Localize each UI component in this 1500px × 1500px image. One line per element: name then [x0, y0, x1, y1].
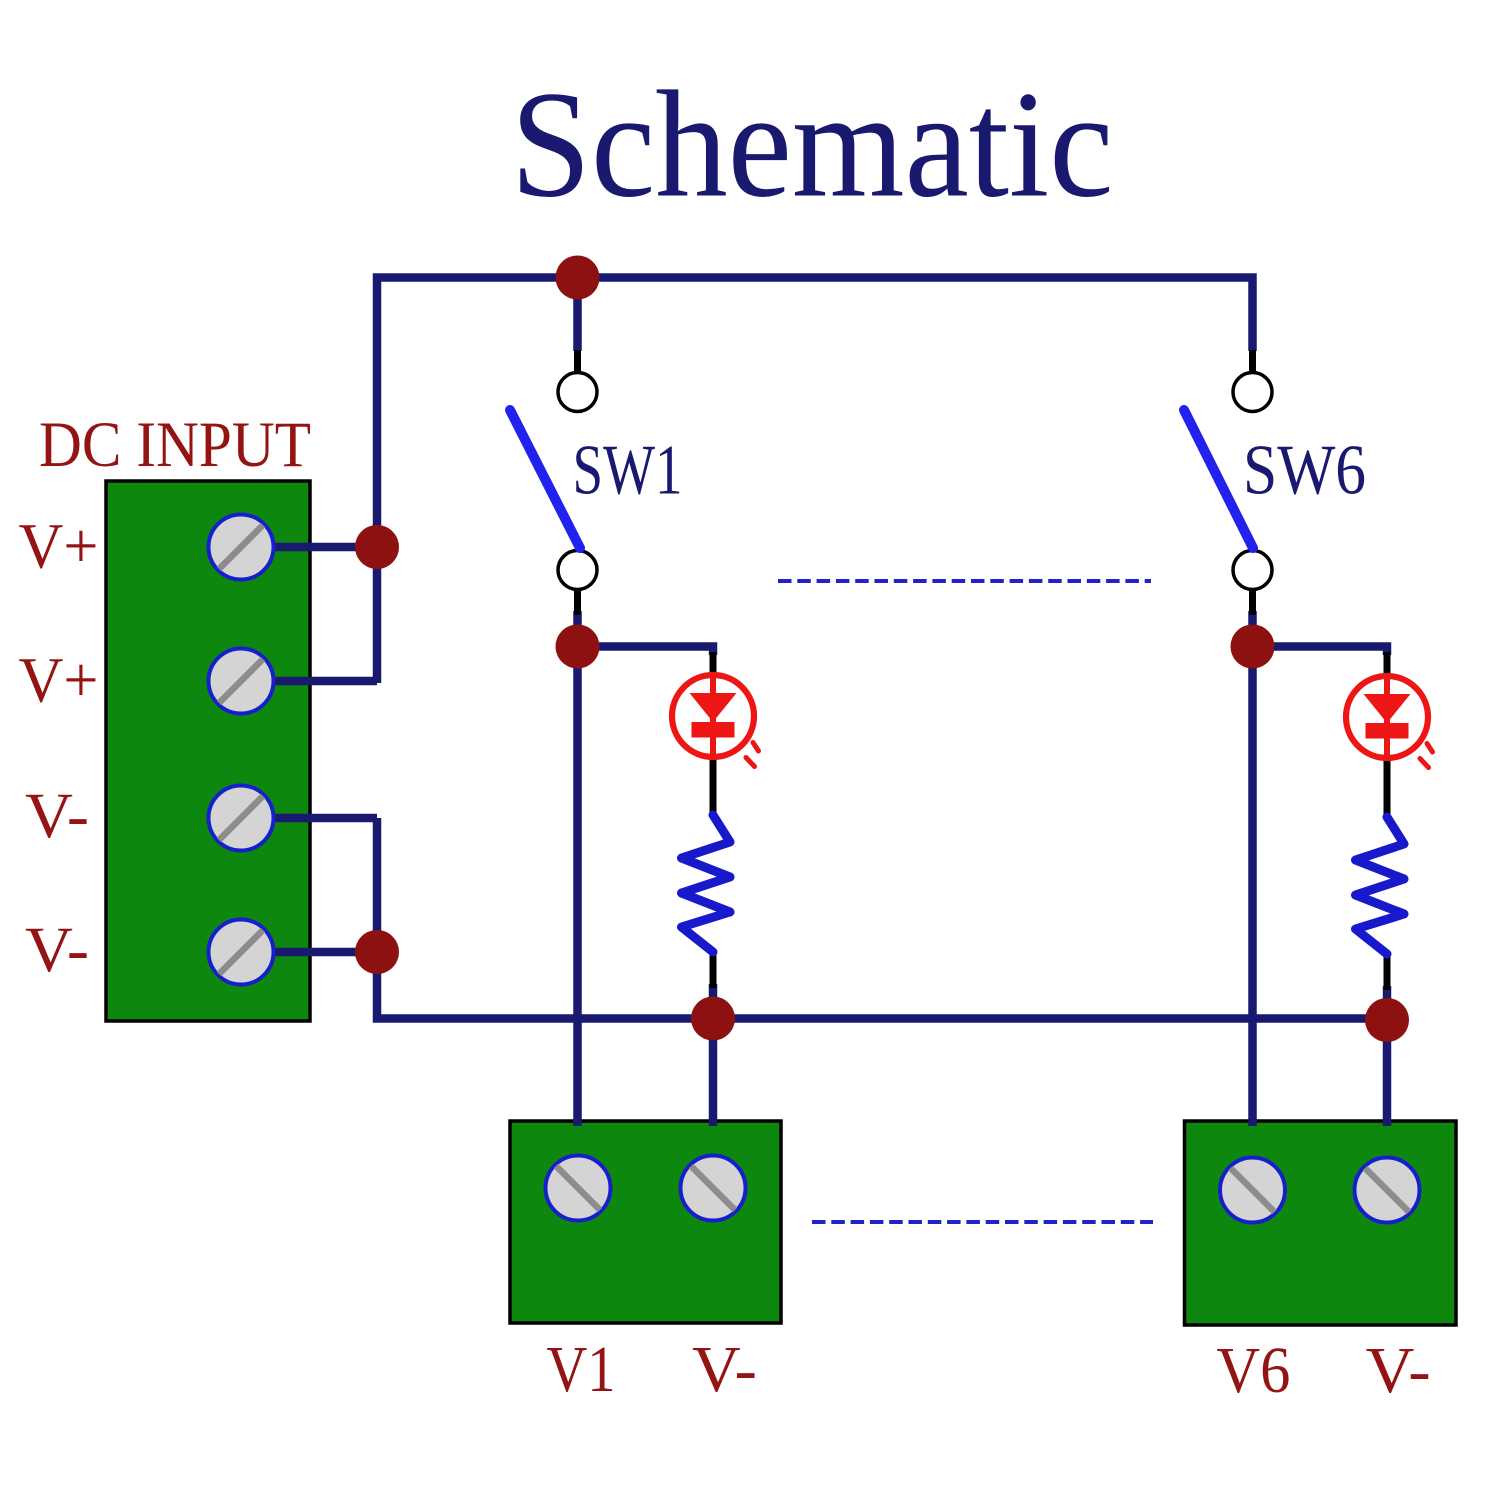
switch SW1 top contact [558, 373, 597, 412]
wire: black lead above SW6 top contact [1249, 350, 1256, 372]
switch SW1 lever [510, 410, 580, 548]
screw terminal J1 pin 3 (V-) [209, 786, 274, 851]
dashed continuation line (output block row) [812, 1220, 1153, 1224]
wire: black lead below R6 [1384, 952, 1391, 990]
wire: branch node B to LED D6 [1253, 647, 1388, 656]
label J3 pin V- [1366, 1334, 1431, 1407]
switch SW6 top contact [1233, 373, 1272, 412]
wire: black lead below R1 [710, 950, 717, 988]
screw terminal J1 pin 1 (V+) [209, 515, 274, 580]
wire: black lead above LED D1 [710, 652, 717, 678]
terminal block J1 (DC INPUT) [106, 481, 310, 1021]
label J1 pin V+ (2) [19, 645, 99, 717]
label J2 pin V- [692, 1333, 757, 1406]
wire: SW6 output down to J3 pin V6 [1248, 611, 1257, 1126]
svg-text:V-: V- [25, 914, 89, 986]
junction node A below SW1 [556, 625, 600, 669]
svg-text:SW6: SW6 [1243, 432, 1366, 510]
switch SW1 bottom contact [558, 551, 597, 590]
LED D1 [672, 675, 759, 767]
svg-text:V+: V+ [19, 645, 99, 717]
label J2 pin V1 [547, 1333, 616, 1406]
wire: stub J1 pin V- (4) [272, 948, 377, 957]
wire: black lead above SW1 top contact [574, 350, 581, 372]
wire: stub J1 pin V+ (2) [272, 677, 377, 686]
screw terminal J3 pin V6 [1220, 1158, 1285, 1223]
junction at J1 V- [355, 930, 399, 974]
wire: feed from rail to SW1 [573, 278, 582, 352]
junction node B below SW6 [1231, 625, 1275, 669]
wire: stub J1 pin V+ (1) [272, 543, 377, 552]
resistor R1 [682, 815, 731, 952]
svg-text:V6: V6 [1216, 1334, 1290, 1407]
junction at J1 V+ [355, 525, 399, 569]
dashed continuation line (switch row) [778, 579, 1151, 583]
LED D6 [1346, 676, 1433, 768]
svg-text:Schematic: Schematic [511, 61, 1114, 230]
label J1 pin V+ (1) [19, 511, 99, 583]
wire: V- vertical from J1 and bottom V- rail [377, 818, 1387, 1019]
label DC INPUT [39, 409, 311, 481]
screw terminal J2 pin V1 [546, 1156, 611, 1221]
wire: black lead above LED D6 [1384, 652, 1391, 679]
svg-text:V+: V+ [19, 511, 99, 583]
screw terminal J2 pin V- [681, 1156, 746, 1221]
wire: SW1 output down to J2 pin V1 [573, 611, 582, 1126]
wire: R1 bottom to V- rail and J2 pin V- [709, 984, 718, 1126]
wire: black lead LED D6 to R6 [1384, 756, 1391, 820]
switch SW6 bottom contact [1233, 551, 1272, 590]
label J3 pin V6 [1216, 1334, 1290, 1407]
junction R1 at V- rail [691, 997, 735, 1041]
switch SW6 lever [1184, 410, 1253, 548]
svg-text:DC INPUT: DC INPUT [39, 409, 311, 481]
wire: black lead below SW1 bottom contact [574, 589, 581, 615]
svg-text:V1: V1 [547, 1333, 616, 1406]
wire: black lead LED D1 to R1 [710, 755, 717, 818]
terminal block J2 (V1 output) [510, 1121, 781, 1323]
label J1 pin V- (3) [25, 780, 89, 852]
screw terminal J3 pin V- [1355, 1158, 1420, 1223]
wire: V+ rail (left drop, top rail, drop to SW6) [377, 278, 1253, 684]
resistor R6 [1356, 817, 1405, 954]
title: Schematic [511, 61, 1114, 230]
wire: stub J1 pin V- (3) [272, 814, 377, 823]
label SW6 [1243, 432, 1366, 510]
junction on top rail above SW1 [556, 256, 600, 300]
wire: R6 bottom to V- rail and J3 pin V- [1383, 986, 1392, 1126]
terminal block J3 (V6 output) [1185, 1121, 1457, 1325]
svg-text:V-: V- [1366, 1334, 1431, 1407]
svg-text:V-: V- [25, 780, 89, 852]
junction R6 at V- rail [1365, 998, 1409, 1042]
label J1 pin V- (4) [25, 914, 89, 986]
screw terminal J1 pin 4 (V-) [209, 920, 274, 985]
screw terminal J1 pin 2 (V+) [209, 649, 274, 714]
wire: black lead below SW6 bottom contact [1249, 589, 1256, 615]
svg-text:SW1: SW1 [573, 432, 683, 510]
svg-text:V-: V- [692, 1333, 757, 1406]
label SW1 [573, 432, 683, 510]
wire: branch node A to LED D1 [578, 647, 714, 656]
